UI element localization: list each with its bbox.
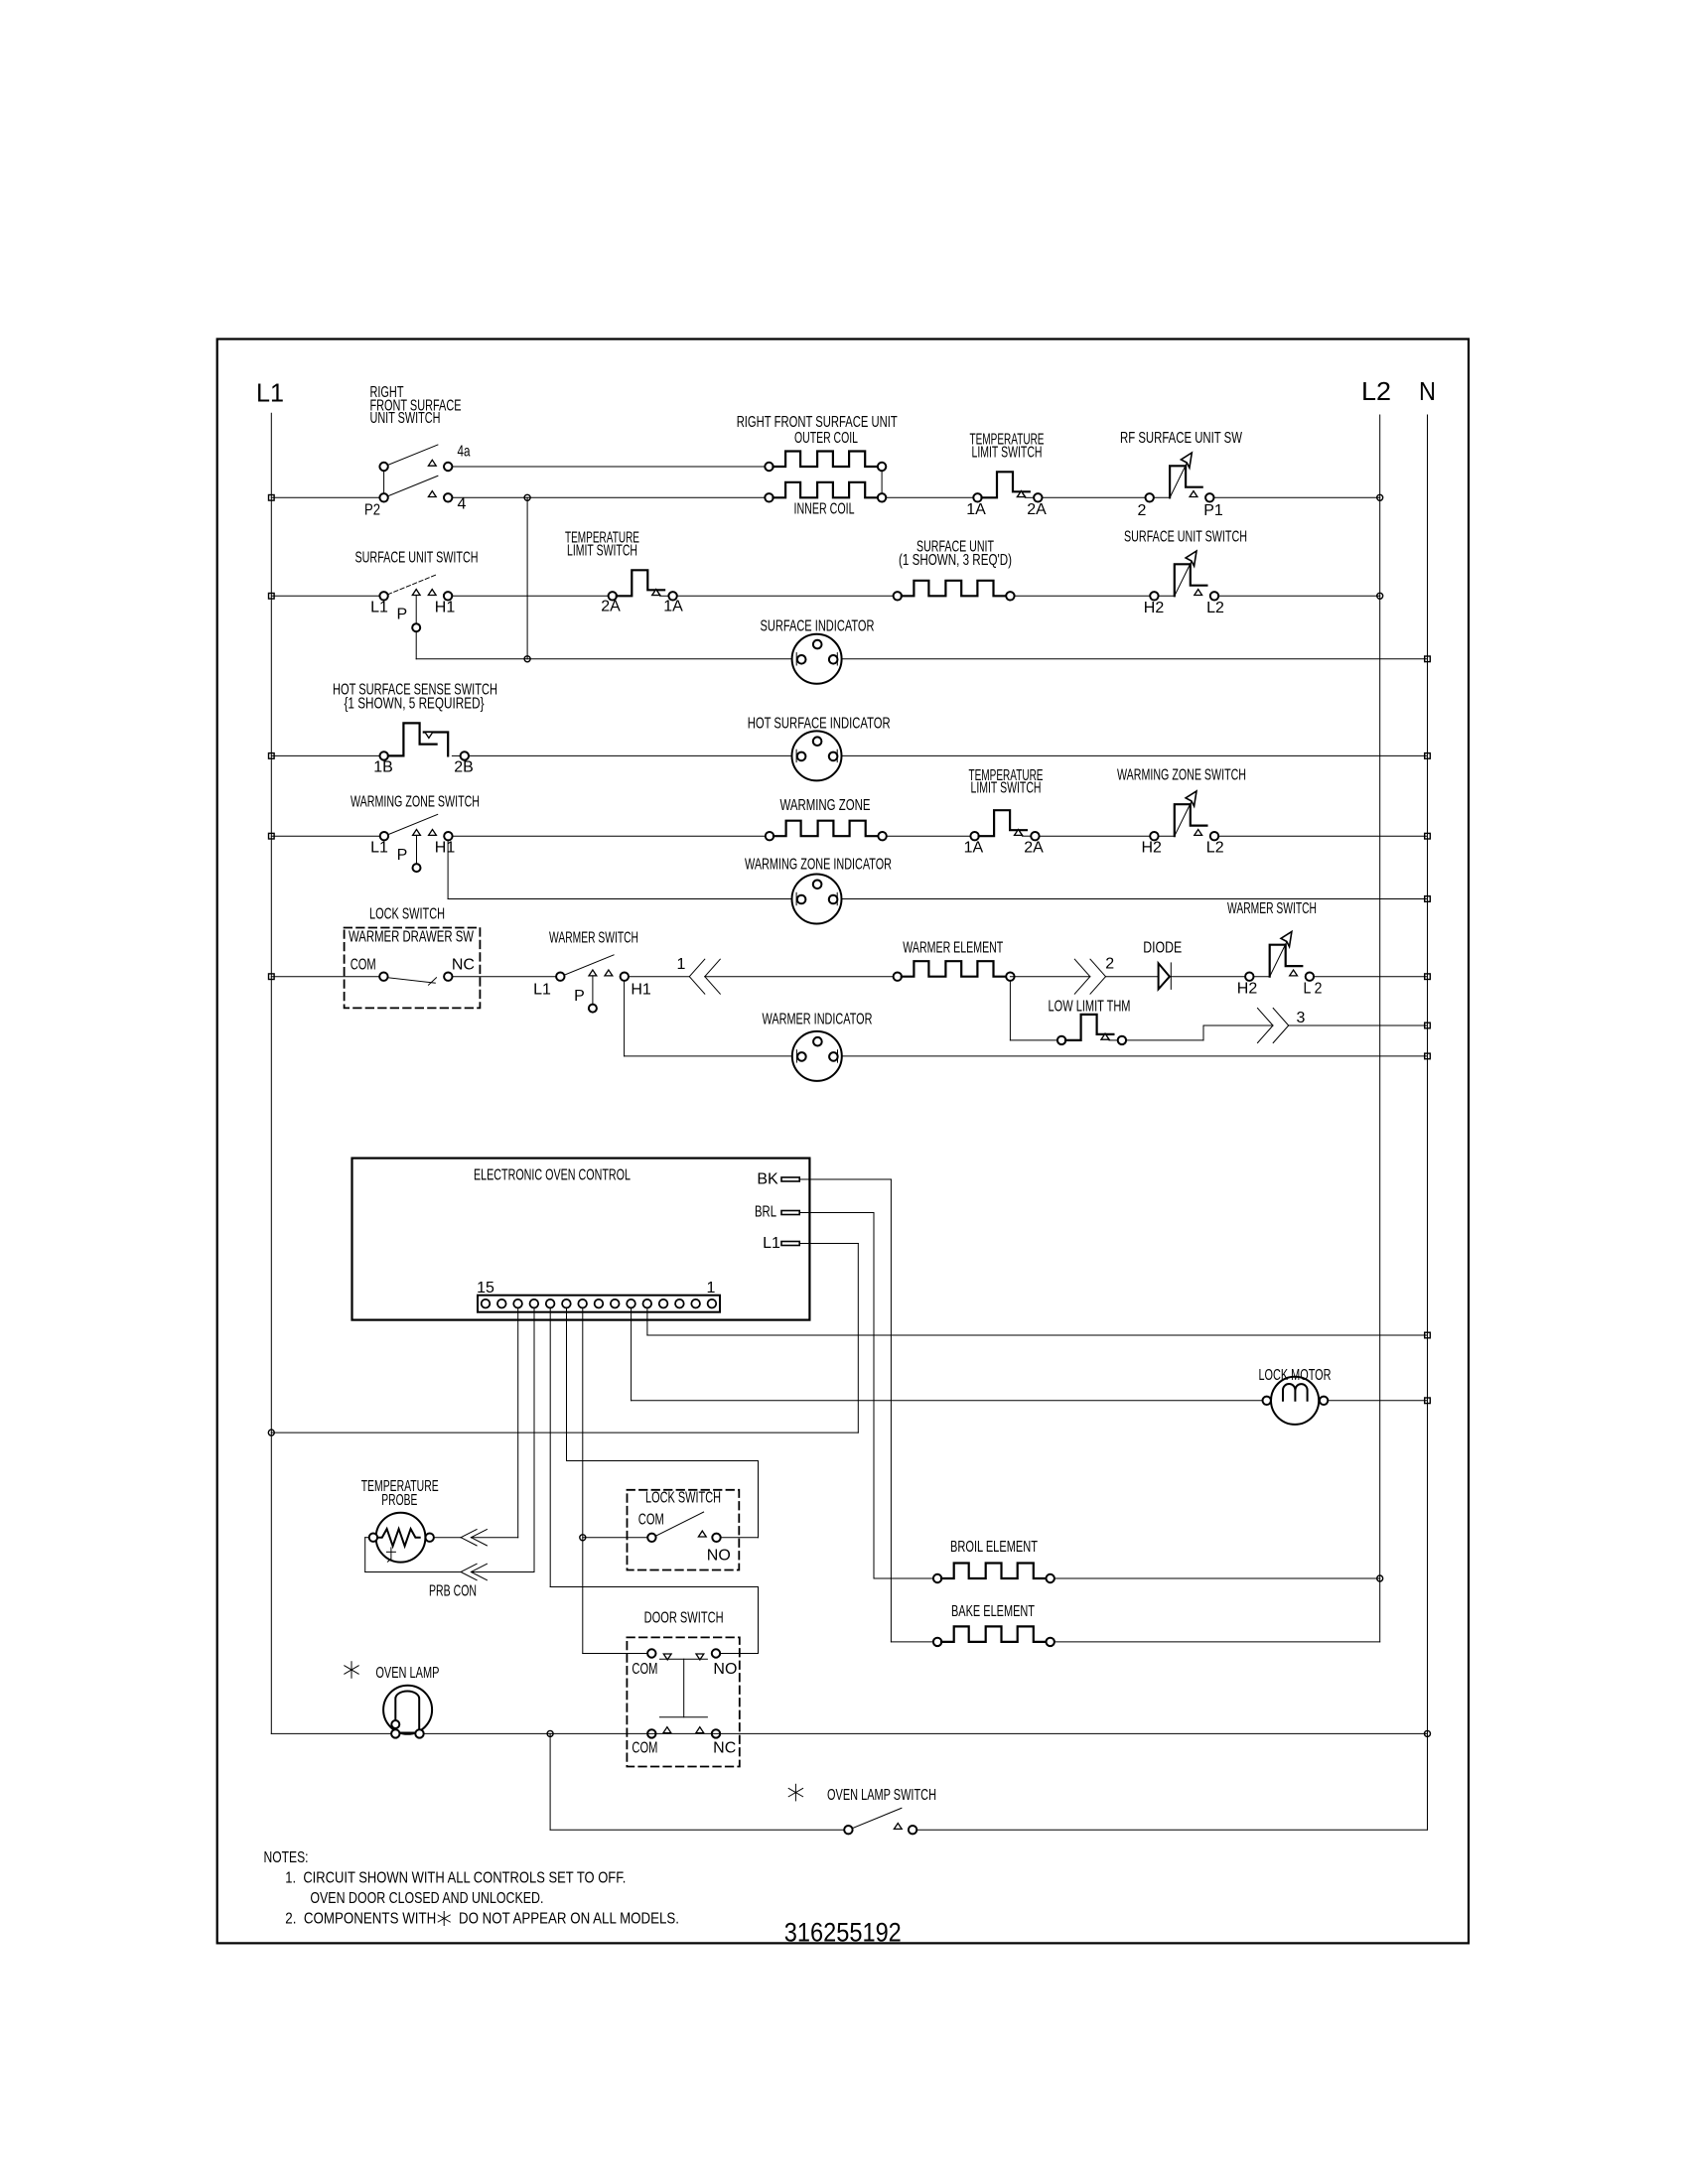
lamp: WARMER INDICATOR: [792, 1031, 842, 1081]
svg-text:WARMING ZONE: WARMING ZONE: [780, 797, 871, 814]
svg-text:RF SURFACE UNIT SW: RF SURFACE UNIT SW: [1120, 430, 1243, 447]
node: row4 junction on N rail: [1425, 656, 1431, 662]
svg-text:SURFACE UNIT SWITCH: SURFACE UNIT SWITCH: [1124, 529, 1247, 546]
svg-text:WARMING ZONE SWITCH: WARMING ZONE SWITCH: [351, 794, 480, 811]
switch: HOT SURFACE SENSE SWITCH (1B/2B): [380, 751, 388, 759]
switch: OVEN LAMP SWITCH: [844, 1826, 852, 1834]
lamp: HOT SURFACE INDICATOR: [792, 731, 842, 780]
svg-text:LIMIT SWITCH: LIMIT SWITCH: [567, 543, 637, 560]
switch: WARMER SWITCH right (H2/L2): [1245, 973, 1253, 981]
svg-text:2: 2: [1105, 956, 1114, 973]
svg-text:(1 SHOWN, 3 REQ'D): (1 SHOWN, 3 REQ'D): [899, 552, 1012, 569]
resistor: BROIL ELEMENT: [933, 1574, 941, 1582]
svg-text:H1: H1: [435, 600, 456, 616]
switch: LOCK SWITCH (COM/NO) in dashed box: [628, 1490, 740, 1570]
svg-text:15: 15: [477, 1280, 494, 1297]
wire: P1 to L2 rail: [1214, 496, 1380, 498]
svg-text:COM: COM: [638, 1512, 664, 1529]
wire: pin10 to lock switch NO: [566, 1307, 568, 1461]
resistor: INNER COIL: [765, 493, 773, 501]
svg-text:WARMER DRAWER SW: WARMER DRAWER SW: [349, 929, 475, 946]
wire: lock motor to N rail: [1328, 1400, 1427, 1402]
svg-text:COM: COM: [632, 1661, 657, 1678]
node: row2 junction on L2 rail: [1377, 494, 1383, 500]
svg-text:HOT SURFACE INDICATOR: HOT SURFACE INDICATOR: [748, 716, 891, 733]
node: warming row junction on L1 rail: [269, 833, 275, 839]
svg-text:2: 2: [1138, 502, 1147, 519]
connector: probe quick-connect (upper): [461, 1530, 477, 1538]
switch: TEMPERATURE LIMIT SWITCH (row2, 1A/2A): [973, 493, 981, 501]
wire: broil element to L2 rail: [1055, 1577, 1380, 1579]
resistor: WARMING ZONE element: [766, 832, 774, 840]
wire: connector 1 to warmer element: [705, 976, 898, 978]
svg-text:LOCK SWITCH: LOCK SWITCH: [369, 906, 445, 923]
resistor: RIGHT FRONT SURFACE UNIT OUTER COIL: [765, 463, 773, 471]
page border frame: [217, 340, 1469, 1944]
svg-text:LIMIT SWITCH: LIMIT SWITCH: [971, 780, 1042, 797]
svg-text:P: P: [396, 607, 407, 623]
connector: quick-connect 3 (chevrons): [1258, 1009, 1274, 1026]
node: lamp row junction on N rail: [1425, 1730, 1431, 1736]
switch: WARMER DRAWER SW (COM/NC) in dashed box: [345, 928, 481, 1009]
svg-text:P: P: [574, 988, 585, 1005]
node: lock motor junction on N rail: [1425, 1398, 1431, 1404]
wire: oven lamp row (L1 rail to N rail): [271, 1732, 1427, 1734]
svg-text:1B: 1B: [373, 759, 393, 776]
connector: quick-connect 2 (chevrons): [1074, 959, 1090, 977]
svg-text:WARMER INDICATOR: WARMER INDICATOR: [763, 1012, 873, 1028]
switch: LOW LIMIT THM: [1057, 1036, 1065, 1044]
wire: row2 4 to inner coil: [452, 496, 769, 498]
wire: from L1 rail to 1B: [271, 754, 383, 756]
wire: L2 terminal to L2 rail: [1218, 595, 1380, 597]
wire: probe upper terminal to connector: [434, 1537, 461, 1539]
svg-text:NOTES:: NOTES:: [264, 1849, 309, 1866]
svg-text:PRB CON: PRB CON: [429, 1583, 477, 1600]
wire: L1 pin down and across to L1 rail: [799, 1243, 858, 1245]
svg-text:OVEN LAMP SWITCH: OVEN LAMP SWITCH: [827, 1787, 936, 1804]
node: hot-surface row junction on N rail: [1425, 753, 1431, 759]
svg-text:WARMER SWITCH: WARMER SWITCH: [549, 930, 638, 947]
symbol: asterisk (note 2): [443, 1912, 445, 1926]
diode: DIODE: [1159, 963, 1170, 989]
svg-text:2A: 2A: [601, 599, 621, 615]
svg-text:RIGHT FRONT SURFACE UNIT: RIGHT FRONT SURFACE UNIT: [737, 414, 898, 431]
lamp: SURFACE INDICATOR: [792, 634, 842, 684]
svg-text:NC: NC: [452, 957, 475, 974]
svg-text:PROBE: PROBE: [381, 1492, 417, 1509]
connector: PRB CON quick-connect (lower): [461, 1564, 477, 1571]
node: hot-surface row junction on L1 rail: [269, 753, 275, 759]
svg-text:DOOR SWITCH: DOOR SWITCH: [644, 1610, 724, 1627]
switch: SURFACE UNIT SWITCH (L1/P/H1, dashed blade): [379, 592, 387, 600]
svg-text:WARMER SWITCH: WARMER SWITCH: [1227, 900, 1317, 917]
wire: vertical feeder from row2 down to surface indicator row: [526, 497, 528, 659]
resistor: SURFACE UNIT element: [894, 592, 902, 600]
wire: element to surface unit switch right: [1015, 595, 1155, 597]
wire: from L1 rail to warming zone switch: [271, 835, 384, 837]
svg-text:4a: 4a: [458, 444, 471, 461]
wire: lamp switch to N rail bottom: [916, 1829, 1427, 1831]
switch: WARMING ZONE SWITCH (L1/P/H1): [380, 832, 388, 840]
svg-text:SURFACE INDICATOR: SURFACE INDICATOR: [761, 618, 875, 635]
resistor: BAKE ELEMENT: [933, 1638, 941, 1646]
svg-text:L1: L1: [763, 1235, 780, 1252]
wire: N neutral rail (right vertical bus): [1427, 415, 1429, 1830]
wire: pin5 to N rail: [646, 1307, 648, 1335]
wire: branch from warmer element down to low limit THM: [1009, 981, 1011, 1040]
svg-text:1: 1: [707, 1280, 716, 1297]
svg-text:L2: L2: [1361, 376, 1391, 406]
wire: drop from lamp row to oven lamp switch row: [549, 1733, 551, 1830]
wire: 2B to hot surface indicator and N rail: [469, 754, 1428, 756]
wire: H1 drop to warming zone indicator row: [447, 840, 449, 898]
node: junction lamp row / lamp switch drop: [547, 1730, 553, 1736]
wire: L2 terminal to N rail (warming row): [1218, 835, 1427, 837]
wire: from L1 rail into warmer drawer switch: [271, 976, 383, 978]
svg-text:L1: L1: [370, 840, 388, 857]
switch: WARMER SWITCH (L1/P/H1): [556, 973, 564, 981]
wire: inner coil to temperature limit switch: [886, 496, 977, 498]
svg-text:1A: 1A: [663, 599, 683, 615]
node: junction pin9 / lock COM: [580, 1535, 586, 1541]
node: junction row2 / vertical feeder: [524, 494, 530, 500]
svg-text:LIMIT SWITCH: LIMIT SWITCH: [972, 445, 1043, 462]
svg-text:NO: NO: [707, 1548, 731, 1565]
wire: row2 from L1 rail to P2: [271, 496, 383, 498]
svg-text:INNER COIL: INNER COIL: [794, 501, 855, 518]
node: row2 junction on L1 rail: [269, 495, 275, 501]
wire: pin6 to lock motor: [631, 1307, 633, 1401]
svg-text:3: 3: [1297, 1010, 1306, 1026]
thermistor: TEMPERATURE PROBE: [376, 1513, 426, 1563]
node: junction EOC L1 wire on L1 rail: [268, 1430, 274, 1435]
wire: limit switch to surface unit element: [677, 595, 898, 597]
svg-text:H1: H1: [435, 840, 456, 857]
svg-text:LOCK SWITCH: LOCK SWITCH: [645, 1490, 721, 1507]
svg-text:{1 SHOWN, 5 REQUIRED}: {1 SHOWN, 5 REQUIRED}: [345, 696, 485, 713]
wire: L1 supply rail (left vertical bus): [270, 413, 272, 1733]
svg-text:H1: H1: [631, 982, 651, 999]
wire: L2 terminal to N rail (warmer row): [1314, 976, 1427, 978]
svg-text:H2: H2: [1141, 840, 1162, 857]
symbol: asterisk (oven lamp switch): [794, 1784, 796, 1801]
wire: connector 3 to N rail: [1289, 1024, 1428, 1026]
node: connector-3 row junction on N rail: [1425, 1023, 1431, 1028]
connector: 15-pin strip: [478, 1296, 720, 1312]
connector: quick-connect 1 (chevrons): [689, 959, 705, 977]
wire: diode to warmer switch right: [1171, 976, 1249, 978]
wire: L2 supply rail (right vertical bus): [1379, 415, 1381, 1642]
svg-text:UNIT SWITCH: UNIT SWITCH: [370, 410, 441, 427]
svg-text:L 2: L 2: [1304, 980, 1323, 997]
svg-text:1. CIRCUIT SHOWN WITH ALL CON: 1. CIRCUIT SHOWN WITH ALL CONTROLS SET T…: [285, 1870, 626, 1887]
svg-text:SURFACE UNIT SWITCH: SURFACE UNIT SWITCH: [355, 550, 479, 567]
wire: H1 to limit switch (row3): [452, 595, 613, 597]
lamp: OVEN LAMP: [383, 1686, 432, 1734]
node: warmer row junction on N rail: [1425, 974, 1431, 980]
svg-text:L2: L2: [1206, 840, 1224, 857]
svg-text:WARMING ZONE SWITCH: WARMING ZONE SWITCH: [1117, 766, 1246, 783]
wire: limit switch to warming zone switch right: [1040, 835, 1155, 837]
svg-text:BROIL ELEMENT: BROIL ELEMENT: [950, 1539, 1038, 1556]
wire: probe lower loop to PRB CON connector: [365, 1537, 369, 1539]
switch: SURFACE UNIT SWITCH right (H2/L2): [1150, 592, 1158, 600]
svg-text:L1: L1: [256, 378, 284, 408]
svg-text:NO: NO: [713, 1661, 737, 1678]
switch: RIGHT FRONT SURFACE UNIT SWITCH (double pole P2/4a/4): [379, 463, 387, 471]
svg-text:316255192: 316255192: [784, 1918, 902, 1948]
svg-text:2. COMPONENTS WITH: 2. COMPONENTS WITH: [285, 1911, 436, 1928]
svg-text:1: 1: [677, 956, 686, 973]
svg-text:1A: 1A: [966, 501, 986, 518]
wire: outer to inner coil right terminals: [881, 471, 883, 493]
wire: row1 4a to outer coil: [452, 466, 769, 468]
svg-text:P: P: [397, 847, 408, 864]
wire: BK pin to bake element: [799, 1178, 891, 1180]
svg-text:4: 4: [458, 496, 467, 513]
svg-text:NC: NC: [713, 1740, 736, 1757]
svg-text:ELECTRONIC OVEN CONTROL: ELECTRONIC OVEN CONTROL: [474, 1167, 631, 1184]
node: row3 junction on L1 rail: [269, 594, 275, 600]
svg-text:P1: P1: [1203, 502, 1223, 519]
node: row3 junction on L2 rail: [1377, 593, 1383, 599]
wire: P terminal drop to indicator row: [415, 632, 417, 659]
wire: BRL pin to broil element: [799, 1212, 874, 1214]
node: junction feeder/indicator row: [524, 656, 530, 662]
wire: pin12 to PRB CON: [533, 1307, 535, 1572]
svg-text:OVEN DOOR CLOSED AND UNLOCKED.: OVEN DOOR CLOSED AND UNLOCKED.: [310, 1890, 543, 1907]
wire: THM to connector 3: [1126, 1039, 1203, 1041]
svg-text:BK: BK: [757, 1171, 778, 1188]
svg-text:L1: L1: [533, 982, 551, 999]
svg-text:LOCK MOTOR: LOCK MOTOR: [1259, 1367, 1332, 1384]
svg-text:OUTER COIL: OUTER COIL: [794, 430, 858, 447]
svg-text:BRL: BRL: [755, 1204, 776, 1221]
svg-text:H2: H2: [1144, 600, 1165, 616]
node: warmer indicator junction on N rail: [1425, 1053, 1431, 1059]
node: junction warmer element / low limit branch: [1010, 976, 1089, 978]
symbol: asterisk (oven lamp): [351, 1662, 352, 1679]
resistor: WARMER ELEMENT: [894, 973, 902, 981]
wire: connector 2 to diode: [1106, 976, 1159, 978]
wire: NC to warmer switch: [453, 976, 561, 978]
wire: pin9 to lock switch COM and door switch COM: [582, 1307, 584, 1654]
wire: bake element to L2 rail bottom: [1055, 1641, 1380, 1643]
svg-text:OVEN LAMP: OVEN LAMP: [375, 1665, 439, 1682]
wire: row3 from L1 rail to switch: [271, 595, 383, 597]
node: broil junction on L2 rail: [1377, 1575, 1383, 1581]
node: warming indicator junction on N rail: [1425, 896, 1431, 902]
svg-text:LOW LIMIT THM: LOW LIMIT THM: [1049, 999, 1131, 1016]
switch: TEMPERATURE LIMIT SWITCH (warming, 1A/2A): [970, 832, 978, 840]
svg-text:N: N: [1419, 376, 1436, 406]
svg-text:DO NOT APPEAR ON ALL MODELS.: DO NOT APPEAR ON ALL MODELS.: [459, 1911, 679, 1928]
wire: H1 to connector 1: [629, 976, 690, 978]
IC: ELECTRONIC OVEN CONTROL box: [352, 1159, 810, 1320]
wire: H1 to warming zone element: [453, 835, 770, 837]
svg-text:BAKE ELEMENT: BAKE ELEMENT: [951, 1603, 1035, 1620]
wire: pin11 to door switch NO: [549, 1307, 551, 1587]
node: warmer row junction on L1 rail: [269, 974, 275, 980]
svg-text:2A: 2A: [1024, 840, 1044, 857]
switch: TEMPERATURE LIMIT SWITCH (row3, 2A/1A): [609, 592, 617, 600]
svg-text:COM: COM: [632, 1740, 657, 1757]
motor: LOCK MOTOR: [1271, 1377, 1319, 1425]
svg-text:H2: H2: [1237, 980, 1258, 997]
wire: element to limit switch (warming): [887, 835, 975, 837]
switch: RF SURFACE UNIT SW (2/P1): [1146, 493, 1154, 501]
svg-text:P2: P2: [364, 502, 380, 519]
lamp: WARMING ZONE INDICATOR: [792, 875, 842, 924]
wire: pin13 to temperature probe: [517, 1307, 519, 1538]
svg-text:L2: L2: [1206, 600, 1224, 616]
svg-text:WARMING ZONE INDICATOR: WARMING ZONE INDICATOR: [745, 857, 892, 874]
svg-text:WARMER ELEMENT: WARMER ELEMENT: [903, 940, 1003, 957]
svg-text:DIODE: DIODE: [1143, 940, 1182, 957]
svg-text:2B: 2B: [454, 759, 474, 776]
node: pin5 row junction on N rail: [1425, 1332, 1431, 1338]
svg-text:2A: 2A: [1027, 501, 1047, 518]
wire: warmer switch H1 drop to warmer indicator row: [624, 981, 626, 1056]
svg-text:L1: L1: [370, 600, 388, 616]
node: warming row junction on N rail: [1425, 833, 1431, 839]
wire: limit switch to RF surface unit sw: [1043, 496, 1150, 498]
svg-text:1A: 1A: [964, 840, 984, 857]
switch: WARMING ZONE SWITCH right (H2/L2): [1150, 832, 1158, 840]
switch: DOOR SWITCH (DPST) in dashed box: [627, 1637, 739, 1766]
svg-text:COM: COM: [351, 957, 376, 974]
